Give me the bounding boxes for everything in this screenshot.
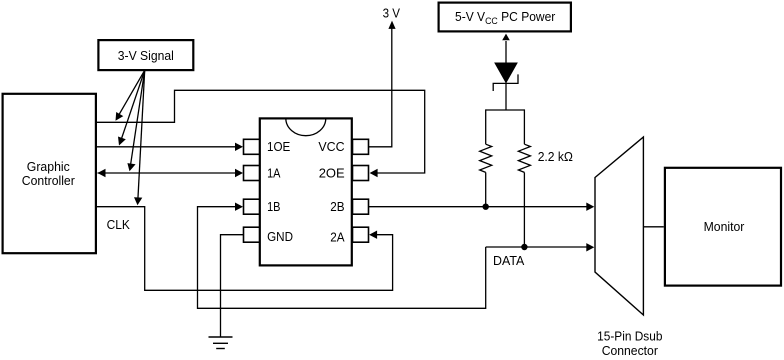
wire GND pin to ground <box>221 235 244 337</box>
wire VCC to 3 V <box>369 28 392 147</box>
resistor R1 <box>480 109 492 206</box>
pin 1A box <box>244 166 260 181</box>
svg-text:2OE: 2OE <box>319 166 345 181</box>
wire CLK: Graphic Controller to 2A <box>97 207 393 291</box>
svg-text:15-Pin Dsub: 15-Pin Dsub <box>597 328 662 343</box>
resistor R2 2.2k <box>518 109 530 247</box>
svg-text:2B: 2B <box>330 199 344 214</box>
label 15-Pin Dsub Connector <box>597 328 662 358</box>
svg-text:Connector: Connector <box>602 343 659 358</box>
Monitor box <box>665 168 781 286</box>
wire 1B net: DATA corner to 1B <box>198 207 486 309</box>
pin 1B box <box>244 199 260 214</box>
svg-text:2A: 2A <box>330 229 345 244</box>
svg-text:Controller: Controller <box>22 173 76 188</box>
svg-text:Graphic: Graphic <box>27 159 70 174</box>
wire W_C: Graphic Controller to 1A (bidirectional) <box>98 172 237 174</box>
wire connector to monitor <box>643 226 663 228</box>
svg-text:DATA: DATA <box>493 253 525 268</box>
svg-text:Monitor: Monitor <box>704 219 745 234</box>
wire W_A: Graphic Controller to 2OE <box>97 90 425 173</box>
wire resistor top rail <box>486 109 525 111</box>
Graphic Controller box <box>3 94 96 253</box>
svg-text:CLK: CLK <box>107 217 131 232</box>
svg-text:2.2 kΩ: 2.2 kΩ <box>538 149 574 164</box>
callout arrow to wire CLK <box>138 70 145 199</box>
svg-text:1OE: 1OE <box>267 139 291 154</box>
pin GND box <box>244 227 260 242</box>
ground <box>209 337 233 349</box>
junction node (R2 to DATA line) <box>521 244 527 250</box>
pin 2B box <box>353 199 369 214</box>
diode D1 Schottky <box>493 63 518 110</box>
pin 2A box <box>353 227 369 242</box>
pin 2OE box <box>353 166 369 181</box>
wire W_B: Graphic Controller to 1OE <box>97 146 236 148</box>
wire 2B line to connector <box>369 206 588 208</box>
svg-text:1A: 1A <box>267 165 281 180</box>
svg-text:3-V Signal: 3-V Signal <box>118 48 174 63</box>
wire DATA line to connector <box>486 246 587 248</box>
svg-text:VCC: VCC <box>318 139 344 154</box>
5-V VCC PC Power box <box>439 3 571 32</box>
callout arrow to wire W_A <box>119 70 145 115</box>
15-pin Dsub connector J1 <box>595 137 643 315</box>
wire 5-V supply to diode <box>505 41 507 63</box>
callout arrow to wire W_B <box>121 70 145 139</box>
svg-text:GND: GND <box>267 229 293 244</box>
junction node (R1 to 2B line) <box>483 204 489 210</box>
3-V Signal box <box>98 40 193 70</box>
svg-text:3 V: 3 V <box>383 6 401 21</box>
svg-text:5-V VCC PC Power: 5-V VCC PC Power <box>455 9 556 27</box>
svg-text:1B: 1B <box>267 199 280 214</box>
IC U1 chip body <box>260 118 352 265</box>
pin 1OE box <box>244 139 260 154</box>
pin VCC box <box>353 139 369 154</box>
callout arrow to wire W_C <box>131 70 145 165</box>
